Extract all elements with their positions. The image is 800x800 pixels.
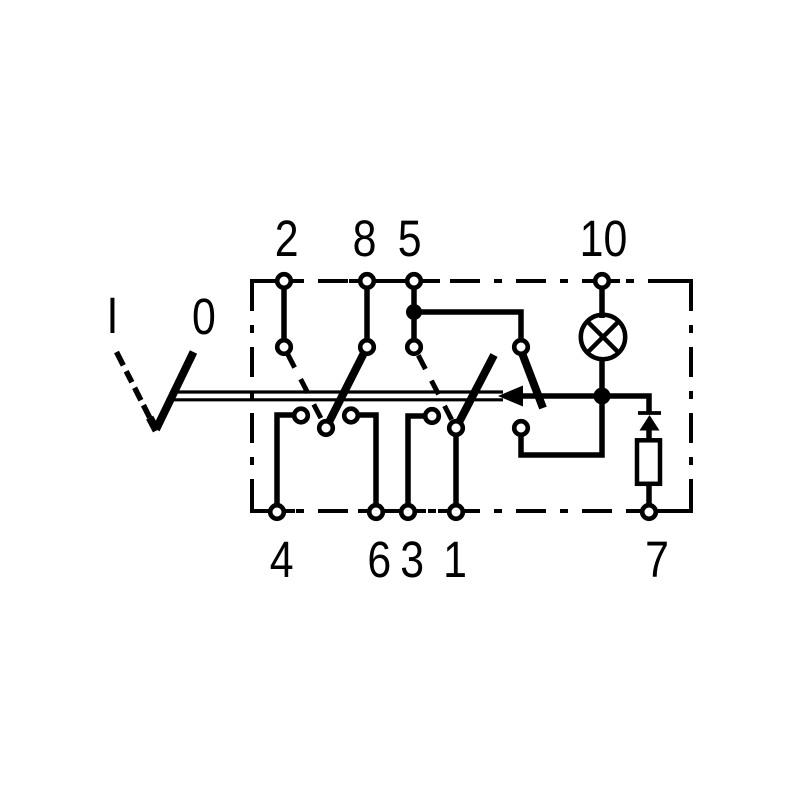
wire: resistor to terminal 7	[646, 486, 652, 512]
contact circle on 5-branch	[514, 340, 528, 354]
wire: stem from terminal 8	[364, 281, 370, 347]
wire stub at terminal 10	[584, 279, 620, 283]
node: junction dot on terminal-5 stem	[406, 304, 422, 320]
enclosure dash-dot border	[252, 281, 691, 511]
svg-text:3: 3	[400, 530, 424, 587]
wire: stem from terminal 5	[411, 281, 417, 347]
switch blade S3 (contact 5-branch downward, open)	[522, 353, 543, 408]
wire stub at terminal 1	[438, 509, 474, 513]
diode V1 triangle	[640, 415, 660, 431]
diode V1 cathode bar	[638, 411, 661, 415]
svg-text:2: 2	[275, 209, 299, 266]
wire: terminal 1 riser to pivot	[453, 428, 459, 505]
svg-text:I: I	[107, 286, 119, 343]
contact circle under 5	[407, 340, 421, 354]
svg-text:6: 6	[367, 530, 391, 587]
terminal 8 circle	[360, 274, 374, 288]
switch blade S2 (pivot P2 upward, open)	[456, 355, 494, 428]
lever arm (position 0, solid)	[156, 352, 194, 430]
wire stub at terminal 6	[358, 509, 394, 513]
wire: L-link terminal 3 to fixed contact	[408, 416, 428, 505]
switch blade S1 alternate position (dashed, 2 to pivot P1)	[288, 354, 323, 421]
fixed contact circle B1 (to terminal 3)	[425, 409, 439, 423]
contact circle under 8	[360, 340, 374, 354]
switch blade S2 alternate position (dashed, 5 to pivot P2)	[418, 355, 452, 420]
terminal 3 circle	[401, 505, 415, 519]
arrowhead on feed line	[498, 386, 523, 407]
wire: main feed line to diode branch	[517, 396, 649, 413]
node: junction dot under lamp	[594, 388, 611, 405]
wire stub at terminal 3	[390, 509, 426, 513]
fixed contact circle C1 (return loop)	[514, 421, 528, 435]
svg-text:5: 5	[398, 209, 422, 266]
fixed contact circle A2 (to terminal 6)	[344, 409, 358, 423]
wire stub at terminal 7	[631, 509, 667, 513]
svg-text:7: 7	[645, 530, 669, 587]
svg-text:1: 1	[443, 530, 467, 587]
wire: diode to resistor	[646, 430, 652, 440]
enclosure border corner marks	[252, 281, 691, 511]
lever vertex stub	[150, 418, 157, 431]
wire: branch from node on 5 to contact column	[414, 312, 521, 347]
wire: return loop from contact to junction	[521, 400, 602, 455]
wire stub at terminal 5	[396, 279, 440, 283]
wire: L-link terminal 4 to fixed contact	[277, 415, 297, 505]
wire: stem from terminal 2	[281, 281, 287, 347]
terminal 10 circle	[595, 274, 609, 288]
terminal 2 circle	[277, 274, 291, 288]
pivot contact circle P1	[319, 421, 333, 435]
wire stub at terminal 4	[259, 509, 295, 513]
svg-text:4: 4	[270, 530, 294, 587]
pivot contact circle P2	[449, 421, 463, 435]
svg-text:8: 8	[353, 209, 377, 266]
wire: lamp to junction	[599, 358, 605, 398]
wire: L-link terminal 6 to fixed contact	[355, 415, 376, 505]
contact circle under 2	[277, 340, 291, 354]
lever arm alternate (position I, dashed)	[117, 352, 150, 418]
mechanical actuator bar (double line)	[171, 390, 504, 393]
wire stub at terminal 2	[266, 279, 302, 283]
terminal 4 circle	[270, 505, 284, 519]
terminal 7 circle	[642, 505, 656, 519]
svg-text:0: 0	[192, 287, 216, 344]
switch blade S1 (8 to pivot P1)	[326, 347, 367, 428]
wire stub at terminal 8	[349, 279, 385, 283]
wire: stem from terminal 10 to lamp	[599, 281, 605, 318]
resistor R1	[637, 440, 660, 484]
terminal 6 circle	[369, 505, 383, 519]
terminal 1 circle	[449, 505, 463, 519]
svg-text:10: 10	[580, 209, 628, 266]
fixed contact circle A1 (to terminal 4)	[294, 409, 308, 423]
terminal 5 circle	[407, 274, 421, 288]
lamp E1 (indicator light)	[581, 315, 625, 359]
